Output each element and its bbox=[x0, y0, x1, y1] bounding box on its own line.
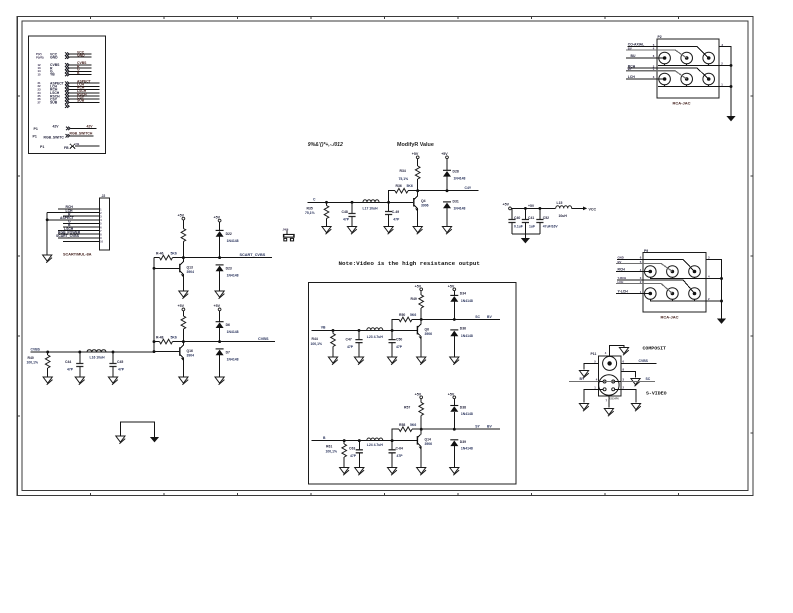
junction res2 bbox=[153, 340, 156, 343]
svg-text:SC: SC bbox=[646, 377, 651, 381]
svg-text:C45: C45 bbox=[117, 360, 123, 364]
wire SY BV out bbox=[421, 428, 500, 430]
ground R35 bbox=[322, 227, 331, 235]
ground Q16 bbox=[179, 377, 188, 385]
pin row FB bbox=[40, 142, 100, 150]
svg-text:5K6: 5K6 bbox=[171, 251, 177, 255]
svg-text:3906: 3906 bbox=[425, 442, 433, 446]
svg-text:BV: BV bbox=[487, 315, 492, 319]
svg-text:1N4148: 1N4148 bbox=[461, 412, 473, 416]
ground P9 bbox=[717, 319, 726, 324]
rca jack P9-E bbox=[667, 288, 679, 300]
power +5V Q16 bbox=[178, 304, 185, 316]
svg-text:L15: L15 bbox=[557, 201, 563, 205]
junction C52 bbox=[538, 207, 541, 210]
svg-text:0.1uF: 0.1uF bbox=[514, 224, 523, 228]
wire svideo bottom-left bbox=[584, 386, 599, 403]
resistor R36 bbox=[389, 184, 418, 202]
junction D34-D36 bbox=[453, 318, 456, 321]
svg-text:Q16: Q16 bbox=[187, 349, 194, 353]
resistor R58 bbox=[392, 423, 421, 441]
wire VB input line bbox=[312, 329, 418, 331]
capacitor C45 bbox=[109, 352, 124, 377]
junction P9 stub bbox=[720, 277, 723, 280]
pin row R bbox=[38, 64, 92, 70]
ground P11 stub2 bbox=[631, 379, 640, 387]
svg-text:+5V: +5V bbox=[178, 304, 185, 308]
junction D6-D7 bbox=[218, 340, 221, 343]
wire svideo bottom-right bbox=[621, 386, 636, 403]
wire P9 shell bar row2 bbox=[650, 299, 722, 301]
resistor R46 bbox=[154, 251, 183, 260]
svg-text:47P: 47P bbox=[393, 218, 400, 222]
wire svideo pin stubs bbox=[599, 382, 621, 390]
junction Q14 collector bbox=[420, 428, 423, 431]
wire double ground link bbox=[120, 422, 154, 437]
capacitor C52 bbox=[536, 208, 558, 233]
resistor R50 bbox=[392, 313, 421, 330]
svg-text:47P: 47P bbox=[118, 368, 125, 372]
ground C50 bbox=[388, 357, 397, 365]
wire BY line gray bbox=[569, 377, 655, 382]
wire SCART_CVBS out bbox=[183, 257, 272, 259]
junction C63 bbox=[358, 439, 361, 442]
connector P11 bbox=[591, 352, 622, 396]
svg-text:FB: FB bbox=[64, 146, 69, 150]
junction D38-D39 bbox=[453, 428, 456, 431]
pin row LCH bbox=[38, 83, 100, 89]
ground C44 bbox=[75, 377, 84, 385]
svg-text:SCART/MUL-8A: SCART/MUL-8A bbox=[63, 253, 92, 257]
svg-text:Q6: Q6 bbox=[425, 327, 430, 331]
wire BU bbox=[626, 54, 663, 58]
svg-text:R44: R44 bbox=[312, 337, 318, 341]
resistor R45 bbox=[181, 229, 186, 258]
ground D31 bbox=[442, 227, 451, 235]
wire Y-RCH P9 bbox=[617, 276, 695, 294]
svg-text:1N4148: 1N4148 bbox=[461, 334, 473, 338]
svg-text:10uH: 10uH bbox=[559, 214, 568, 218]
wire svideo center bottom bbox=[606, 396, 609, 408]
svg-text:J2: J2 bbox=[102, 194, 106, 198]
ground C45 bbox=[108, 377, 117, 385]
pin row RGB_SWITCH bbox=[33, 132, 94, 140]
svg-text:C-64: C-64 bbox=[396, 446, 403, 450]
wire LCH P9 gray bbox=[616, 280, 672, 294]
svg-text:+5V: +5V bbox=[178, 213, 185, 217]
wire CO-AXIAL bbox=[628, 42, 709, 58]
svg-text:47P: 47P bbox=[67, 368, 74, 372]
ground Q4 bbox=[413, 227, 422, 235]
svg-text:+5V: +5V bbox=[214, 215, 221, 219]
junction P9 gnd row2 bbox=[720, 300, 723, 303]
junction C49 bbox=[387, 201, 390, 204]
svg-text:BY: BY bbox=[580, 377, 585, 381]
junction D22-D23 bbox=[218, 256, 221, 259]
svg-text:SC: SC bbox=[475, 315, 480, 319]
svg-text:L24 4.7uH: L24 4.7uH bbox=[367, 443, 384, 447]
pin row GND bbox=[36, 54, 92, 60]
svg-text:CVBS: CVBS bbox=[639, 359, 649, 363]
resistor R40 bbox=[27, 352, 51, 377]
svg-text:L23 4.7uH: L23 4.7uH bbox=[367, 335, 384, 339]
svg-text:R40: R40 bbox=[28, 356, 34, 360]
rca jack P9-C bbox=[689, 266, 701, 278]
svg-text:47P: 47P bbox=[347, 345, 354, 349]
svg-text:D6: D6 bbox=[226, 323, 230, 327]
wire C input line bbox=[308, 201, 414, 203]
svg-text:D22: D22 bbox=[226, 232, 232, 236]
inductor L15 bbox=[556, 201, 583, 218]
diode D38 bbox=[450, 405, 473, 429]
junction C48 bbox=[351, 201, 354, 204]
wire pin4 ASPECT bbox=[47, 216, 99, 220]
wire Y-LCH P9 bbox=[616, 289, 650, 294]
svg-text:SCART_CVBS: SCART_CVBS bbox=[56, 234, 80, 238]
capacitor C41 bbox=[522, 208, 535, 233]
rca jack P2-B bbox=[681, 52, 693, 64]
frame zone ticks bottom bbox=[91, 493, 679, 496]
ground svideo bottom-left bbox=[579, 404, 588, 412]
svg-text:D7: D7 bbox=[226, 350, 230, 354]
junction R35 bbox=[325, 201, 328, 204]
svg-text:C47: C47 bbox=[346, 338, 352, 342]
wire pin9 SCART_CVBS bbox=[56, 234, 99, 238]
wire CVBS out bbox=[183, 341, 275, 343]
svg-text:CVBS: CVBS bbox=[31, 347, 41, 351]
svg-text:R34: R34 bbox=[400, 169, 406, 173]
wire RCH P9 bbox=[616, 267, 650, 272]
power +5V R49 bbox=[415, 284, 423, 295]
pin row YB bbox=[38, 71, 92, 77]
svg-text:Y-LCH: Y-LCH bbox=[618, 289, 629, 293]
svg-text:1N4148: 1N4148 bbox=[454, 176, 466, 180]
inductor L17 bbox=[363, 200, 380, 211]
ground C64 bbox=[388, 468, 397, 476]
border frame inner bbox=[22, 21, 748, 491]
junction filter R bbox=[46, 351, 49, 354]
frame zone ticks right bbox=[750, 96, 753, 433]
pin row RSCH bbox=[38, 92, 100, 98]
power +5V D6 bbox=[214, 304, 222, 322]
svg-text:BV: BV bbox=[618, 260, 622, 264]
svg-text:C40: C40 bbox=[514, 216, 520, 220]
capacitor C63 bbox=[349, 441, 363, 468]
svg-text:1N4148: 1N4148 bbox=[461, 299, 473, 303]
power +5V R57 bbox=[415, 392, 423, 402]
svg-text:C48: C48 bbox=[342, 210, 348, 214]
svg-text:VCC: VCC bbox=[589, 207, 597, 211]
diode D34 bbox=[450, 292, 473, 320]
junction base1 bbox=[153, 267, 156, 270]
ground composite top bbox=[619, 348, 628, 356]
svg-text:R49: R49 bbox=[411, 297, 417, 301]
junction D28-D31 bbox=[446, 189, 449, 192]
svg-text:R50: R50 bbox=[399, 313, 405, 317]
pin row VCC bbox=[36, 50, 92, 56]
ground C47 bbox=[354, 357, 363, 365]
svg-text:RGB_SWITCH: RGB_SWITCH bbox=[70, 132, 93, 136]
rca jack P9-F bbox=[689, 288, 701, 300]
ground left open bbox=[116, 436, 125, 444]
diode D31 bbox=[443, 200, 465, 227]
svg-text:P11: P11 bbox=[591, 352, 597, 356]
svg-text:100,1%: 100,1% bbox=[311, 342, 323, 346]
svg-text:BV: BV bbox=[628, 46, 632, 50]
ground right solid bbox=[150, 437, 159, 442]
svg-text:Q4: Q4 bbox=[421, 199, 426, 203]
junction base2 bbox=[153, 350, 156, 353]
svg-text:R36: R36 bbox=[396, 184, 402, 188]
svg-text:3906: 3906 bbox=[421, 204, 429, 208]
svg-text:1N4148: 1N4148 bbox=[227, 239, 239, 243]
svg-text:J406: J406 bbox=[283, 228, 289, 232]
ground composite left bbox=[579, 371, 588, 379]
junction Q4 collector bbox=[416, 189, 419, 192]
connector P2 bbox=[657, 35, 719, 98]
svg-text:ModifyR Value: ModifyR Value bbox=[397, 142, 434, 148]
svg-text:GND: GND bbox=[77, 54, 85, 58]
wire P2 ground stub bbox=[719, 43, 731, 116]
rca jack composite bbox=[603, 356, 617, 370]
svg-text:75,1%: 75,1% bbox=[305, 211, 315, 215]
resistor R49 bbox=[411, 295, 424, 320]
frame zone ticks left bbox=[17, 96, 20, 416]
svg-text:S-VIDEO: S-VIDEO bbox=[646, 391, 667, 397]
svg-text:C4Y: C4Y bbox=[465, 186, 472, 190]
junction R44 bbox=[332, 329, 335, 332]
resistor R35 bbox=[305, 202, 329, 226]
capacitor C50 bbox=[389, 330, 403, 357]
diode D7 bbox=[216, 349, 239, 377]
ground D7 bbox=[215, 377, 224, 385]
svg-text:100,1%: 100,1% bbox=[326, 449, 338, 453]
ground scart bbox=[43, 255, 52, 263]
svg-text:RCA-JAC: RCA-JAC bbox=[661, 315, 679, 320]
svg-text:27: 27 bbox=[38, 100, 42, 104]
resistor R44 bbox=[311, 330, 336, 357]
svg-text:1N4148: 1N4148 bbox=[227, 357, 239, 361]
transistor Q13 bbox=[154, 258, 194, 291]
wire CVBS input line bbox=[31, 351, 154, 353]
pin row 42V bbox=[34, 124, 97, 131]
svg-text:R58: R58 bbox=[399, 423, 405, 427]
ground R61 bbox=[340, 468, 349, 476]
transistor Q4 bbox=[414, 191, 429, 227]
power +5V D22 bbox=[214, 215, 222, 230]
rca jack P2-A bbox=[659, 52, 671, 64]
svg-text:D39: D39 bbox=[460, 440, 466, 444]
ground Q6 bbox=[417, 357, 426, 365]
junction filter C44 bbox=[78, 351, 81, 354]
wire BV gray bbox=[626, 46, 687, 58]
svg-text:SUB: SUB bbox=[50, 101, 58, 105]
svg-text:R57: R57 bbox=[404, 406, 410, 410]
diode D28 bbox=[443, 170, 465, 191]
wire pin10 bbox=[63, 240, 99, 242]
svg-text:+5V: +5V bbox=[503, 203, 510, 207]
junction P2 gnd row1 bbox=[730, 64, 733, 67]
frame zone ticks top bbox=[91, 17, 679, 20]
svg-text:C52: C52 bbox=[543, 216, 549, 220]
diode D22 bbox=[216, 230, 239, 257]
svg-text:BU: BU bbox=[631, 54, 636, 58]
svg-text:YB: YB bbox=[50, 73, 55, 77]
capacitor C64 bbox=[389, 441, 404, 468]
wire pin2 LCH bbox=[47, 209, 99, 213]
wire P9 right stub bbox=[706, 256, 722, 302]
junction scart gnd bbox=[46, 218, 49, 221]
border frame outer bbox=[17, 17, 753, 496]
pin row SUB bbox=[38, 99, 100, 105]
capacitor C49 bbox=[385, 202, 400, 226]
junction Q16 collector bbox=[182, 340, 185, 343]
transistor Q6 bbox=[417, 319, 432, 357]
wire P9 ground drop bbox=[721, 279, 723, 319]
wire P9 shell bar row1 bbox=[650, 277, 722, 278]
svg-text:D34: D34 bbox=[460, 292, 466, 296]
jumper J406 bbox=[283, 228, 295, 242]
wire RCH P2 bbox=[628, 64, 709, 79]
svg-text:3904: 3904 bbox=[187, 353, 195, 357]
pin row G bbox=[38, 68, 92, 74]
junction Q6 collector bbox=[420, 318, 423, 321]
junction R61 bbox=[343, 439, 346, 442]
svg-text:GND: GND bbox=[618, 255, 624, 259]
wire pin1 RCH bbox=[58, 205, 99, 209]
svg-text:5K6: 5K6 bbox=[410, 313, 416, 317]
svg-text:1N4148: 1N4148 bbox=[454, 206, 466, 210]
svg-text:D23: D23 bbox=[226, 267, 232, 271]
s-video circle bbox=[599, 375, 619, 395]
svg-text:L17 10uH: L17 10uH bbox=[363, 206, 379, 210]
power +5V D38 bbox=[448, 392, 456, 405]
svg-text:R61: R61 bbox=[326, 444, 332, 448]
rca jack P9-B bbox=[667, 266, 679, 278]
power +5V Q13 bbox=[178, 213, 185, 228]
SCART connector J2 bbox=[99, 194, 109, 250]
note box bbox=[309, 283, 516, 484]
svg-text:47P: 47P bbox=[396, 345, 403, 349]
svg-text:1N4148: 1N4148 bbox=[227, 330, 239, 334]
inductor L16 bbox=[87, 350, 106, 360]
svg-text:42V: 42V bbox=[53, 125, 60, 129]
svg-text:C41: C41 bbox=[528, 216, 534, 220]
svg-text:+5V: +5V bbox=[528, 204, 535, 208]
svg-text:D28: D28 bbox=[453, 170, 459, 174]
diode D6 bbox=[216, 322, 239, 342]
resistor R57 bbox=[404, 402, 424, 429]
svg-text:Note:Video is the high resista: Note:Video is the high resistance output bbox=[339, 260, 480, 267]
inductor L23 bbox=[367, 328, 384, 339]
svg-text:P2: P2 bbox=[658, 35, 662, 39]
svg-text:1uF: 1uF bbox=[529, 224, 535, 228]
svg-text:D38: D38 bbox=[460, 405, 466, 409]
svg-text:CVBS: CVBS bbox=[258, 337, 269, 341]
resistor R48 bbox=[154, 335, 183, 344]
svg-text:5K6: 5K6 bbox=[410, 423, 416, 427]
resistor R61 bbox=[326, 441, 347, 468]
pin row ASPECT bbox=[38, 79, 100, 85]
svg-text:47P: 47P bbox=[397, 454, 404, 458]
svg-text:SCART_CVBS: SCART_CVBS bbox=[240, 253, 266, 257]
svg-text:U2S34P6: U2S34P6 bbox=[609, 397, 620, 400]
svg-text:100,1%: 100,1% bbox=[27, 361, 39, 365]
svg-text:L16 10uH: L16 10uH bbox=[90, 356, 106, 360]
rca jack P2-F bbox=[703, 73, 715, 85]
svg-text:RGB_SWITC: RGB_SWITC bbox=[44, 136, 65, 140]
svg-text:P(VR): P(VR) bbox=[36, 55, 44, 59]
svg-text:5K6: 5K6 bbox=[407, 184, 413, 188]
svg-text:LCH: LCH bbox=[618, 280, 624, 284]
power +5V D34 bbox=[448, 284, 456, 295]
svg-text:VB: VB bbox=[321, 326, 326, 330]
svg-text:3904: 3904 bbox=[187, 270, 195, 274]
wire pin8 RGB_POWER bbox=[58, 230, 99, 234]
ground C48 bbox=[347, 227, 356, 235]
svg-text:RCA-JAC: RCA-JAC bbox=[673, 100, 691, 105]
wire pin7 LSCH bbox=[58, 227, 99, 231]
pin row RCH bbox=[38, 86, 100, 92]
ground D39 bbox=[450, 468, 459, 476]
wire cap gnd bus bbox=[512, 234, 540, 238]
wire CVBS out P11 bbox=[621, 359, 657, 364]
wire P2 shell bar row1 bbox=[658, 64, 731, 66]
rca jack P9-A bbox=[645, 266, 657, 278]
ground D36 bbox=[450, 357, 459, 365]
junction C41 bbox=[524, 207, 527, 210]
ground Q14 bbox=[417, 468, 426, 476]
resistor R47 bbox=[181, 316, 186, 342]
connector pin definition box bbox=[29, 36, 106, 154]
svg-text:SUB: SUB bbox=[77, 99, 85, 103]
svg-text:LCH: LCH bbox=[628, 75, 636, 79]
transistor Q16 bbox=[154, 342, 194, 377]
ground C63 bbox=[355, 468, 364, 476]
capacitor C40 bbox=[508, 208, 522, 233]
rca jack P2-E bbox=[681, 73, 693, 85]
wire B input line bbox=[312, 440, 418, 442]
svg-text:47P: 47P bbox=[350, 454, 357, 458]
stray chevron bbox=[65, 105, 69, 108]
ground C49 bbox=[384, 227, 393, 235]
rca jack P2-D bbox=[659, 73, 671, 85]
wire composite left bbox=[584, 360, 599, 370]
diode D36 bbox=[450, 326, 473, 357]
svg-text:P1: P1 bbox=[40, 145, 44, 149]
scart ground wire bbox=[46, 213, 48, 255]
wire C4Y out bbox=[418, 190, 479, 192]
svg-text:P1: P1 bbox=[33, 134, 37, 138]
svg-text:D36: D36 bbox=[460, 326, 466, 330]
svg-text:C50: C50 bbox=[396, 338, 402, 342]
wire P2 shell bar row2 bbox=[658, 85, 731, 87]
junction filter C45 bbox=[112, 351, 115, 354]
wire pin5 G bbox=[63, 220, 99, 224]
ground R40 bbox=[43, 377, 52, 385]
wire base bus vertical bbox=[153, 258, 155, 352]
svg-text:C63: C63 bbox=[349, 446, 355, 450]
wire GND P9 bbox=[617, 255, 695, 271]
svg-text:R-46: R-46 bbox=[156, 251, 163, 255]
rca jack P9-D bbox=[645, 288, 657, 300]
junction C50 bbox=[391, 329, 394, 332]
svg-text:C44: C44 bbox=[65, 360, 71, 364]
power +5V R34 bbox=[412, 152, 419, 166]
svg-text:BY: BY bbox=[628, 67, 632, 71]
svg-text:5K6: 5K6 bbox=[171, 335, 177, 339]
pin row CVBS bbox=[38, 61, 92, 67]
